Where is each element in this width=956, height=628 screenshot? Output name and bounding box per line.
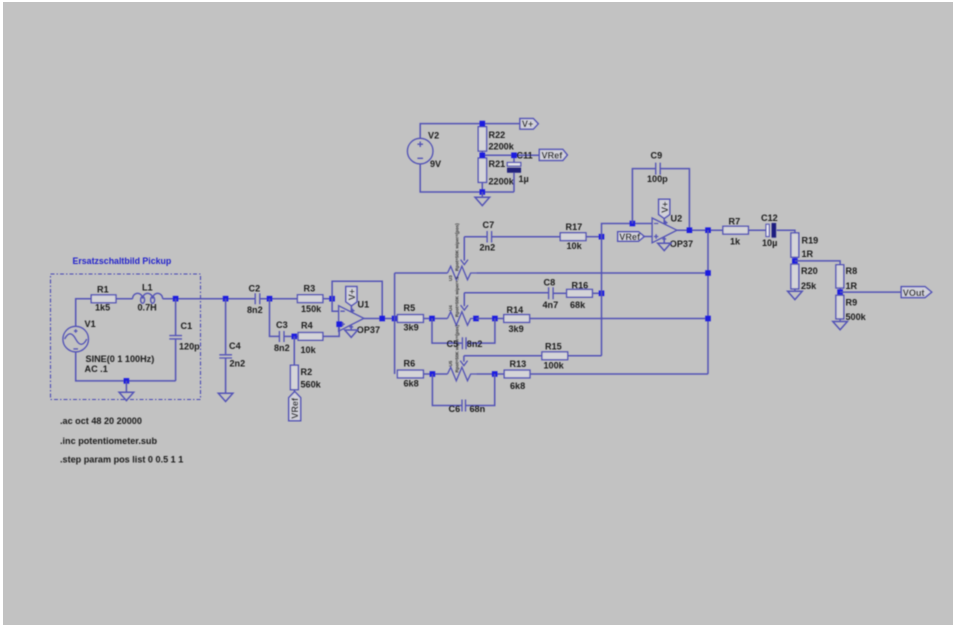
svg-text:R5: R5 bbox=[404, 303, 416, 313]
svg-text:68k: 68k bbox=[570, 300, 586, 310]
svg-text:R22: R22 bbox=[489, 130, 506, 140]
capacitor C6 bridge bbox=[432, 374, 494, 406]
svg-text:Rpot=50K wiper=(pos): Rpot=50K wiper=(pos) bbox=[455, 223, 460, 271]
wire pot2 to R14 bbox=[476, 318, 504, 320]
svg-text:0.7H: 0.7H bbox=[138, 303, 157, 313]
svg-text:500k: 500k bbox=[846, 312, 867, 322]
svg-text:25k: 25k bbox=[801, 281, 817, 291]
svg-text:9V: 9V bbox=[430, 159, 441, 169]
capacitor C1 bbox=[175, 299, 177, 335]
junction V+ rail / R22 bbox=[480, 121, 486, 127]
svg-text:VRef: VRef bbox=[542, 150, 564, 160]
svg-text:8n2: 8n2 bbox=[247, 305, 263, 315]
svg-text:U3: U3 bbox=[448, 275, 453, 281]
svg-text:.step param pos list 0 0.5 1 1: .step param pos list 0 0.5 1 1 bbox=[60, 455, 183, 465]
junction R8/R9/VOut bbox=[837, 289, 843, 295]
svg-text:V+: V+ bbox=[660, 202, 670, 213]
junction C2 out bbox=[267, 296, 273, 302]
svg-text:2200k: 2200k bbox=[489, 142, 515, 152]
svg-text:.inc potentiometer.sub: .inc potentiometer.sub bbox=[60, 436, 157, 446]
svg-text:C2: C2 bbox=[249, 284, 261, 294]
resistor R4 bbox=[298, 333, 323, 341]
op-amp U2 triangle bbox=[652, 218, 677, 243]
svg-text:OP37: OP37 bbox=[670, 239, 693, 249]
svg-text:1k: 1k bbox=[730, 237, 741, 247]
resistor R15 bbox=[542, 352, 568, 360]
svg-text:R15: R15 bbox=[545, 342, 562, 352]
svg-text:OP37: OP37 bbox=[357, 325, 380, 335]
potentiometer U4 track bbox=[448, 312, 477, 325]
resistor R9 bbox=[836, 295, 844, 319]
wire pot3 to R13 bbox=[476, 373, 504, 375]
junction output bus bbox=[392, 316, 398, 322]
svg-text:VRef: VRef bbox=[619, 232, 641, 242]
svg-text:10µ: 10µ bbox=[762, 238, 777, 248]
svg-text:1µ: 1µ bbox=[519, 174, 529, 184]
junction C9 left bbox=[630, 221, 636, 227]
ground pickup bbox=[125, 381, 127, 392]
junction feedback/output bbox=[379, 316, 385, 322]
junction right bus row2 bbox=[705, 316, 711, 322]
svg-text:2n2: 2n2 bbox=[480, 243, 496, 253]
resistor R16 bbox=[567, 289, 593, 297]
svg-text:C12: C12 bbox=[761, 213, 778, 223]
svg-text:R2: R2 bbox=[301, 367, 313, 377]
svg-text:R16: R16 bbox=[572, 280, 589, 290]
svg-text:2200k: 2200k bbox=[489, 177, 515, 187]
capacitor C4 bbox=[225, 299, 227, 355]
svg-text:VOut: VOut bbox=[903, 288, 925, 298]
svg-text:C9: C9 bbox=[651, 151, 663, 161]
junction R16 / mix bus bbox=[599, 291, 605, 297]
junction C5 right bbox=[492, 316, 498, 322]
svg-text:U1: U1 bbox=[358, 300, 370, 310]
svg-text:100k: 100k bbox=[544, 361, 565, 371]
svg-text:V+: V+ bbox=[522, 119, 533, 129]
wire to VOut flag bbox=[840, 291, 901, 293]
svg-text:Rpot=50K wiper=(pos): Rpot=50K wiper=(pos) bbox=[455, 324, 460, 372]
svg-text:10k: 10k bbox=[567, 241, 583, 251]
svg-text:8n2: 8n2 bbox=[274, 343, 290, 353]
resistor R19 bbox=[791, 233, 799, 257]
svg-text:U5: U5 bbox=[448, 360, 453, 366]
wire pickup bottom rail bbox=[76, 352, 176, 381]
svg-text:C11: C11 bbox=[517, 151, 533, 161]
svg-text:560k: 560k bbox=[301, 380, 322, 390]
wire row1 right bbox=[476, 272, 708, 274]
resistor R5 bbox=[397, 315, 423, 323]
svg-text:R9: R9 bbox=[846, 298, 858, 308]
flag V+ at U1 bbox=[350, 306, 352, 312]
voltage source V2 bbox=[407, 138, 433, 164]
resistor R7 bbox=[723, 226, 749, 234]
potentiometer U3 track bbox=[448, 266, 477, 279]
wire mix bus bbox=[602, 224, 653, 356]
svg-text:.ac oct 48 20 20000: .ac oct 48 20 20000 bbox=[60, 416, 142, 426]
svg-text:U4: U4 bbox=[448, 305, 453, 311]
junction C3 out / R2 tap bbox=[292, 334, 298, 340]
junction R5/C5 bbox=[429, 316, 435, 322]
flag VRef (supply mid) bbox=[539, 149, 567, 160]
svg-text:V+: V+ bbox=[347, 289, 357, 300]
svg-text:C8: C8 bbox=[544, 278, 556, 288]
resistor R6 bbox=[397, 370, 423, 378]
svg-text:V1: V1 bbox=[85, 319, 96, 329]
svg-text:C4: C4 bbox=[229, 341, 242, 351]
ground below V2 rail bbox=[481, 192, 483, 197]
junction R6/C6 bbox=[430, 371, 436, 377]
wire V1 top bbox=[76, 299, 92, 327]
svg-text:R20: R20 bbox=[801, 266, 818, 276]
capacitor C11 (polarized 1u) bbox=[513, 155, 515, 162]
junction C6 right bbox=[492, 371, 498, 377]
wire right bus down to row3 bbox=[707, 230, 709, 374]
wire V2 bottom to ground rail bbox=[420, 164, 514, 192]
svg-text:R6: R6 bbox=[404, 359, 416, 369]
wire Vref node to C11 and flag bbox=[482, 154, 539, 156]
dashed enclosure box bbox=[51, 274, 201, 400]
junction output/right bus bbox=[705, 227, 711, 233]
svg-text:100p: 100p bbox=[647, 174, 668, 184]
svg-text:C3: C3 bbox=[276, 320, 288, 330]
capacitor C5 bridge bbox=[432, 319, 495, 344]
junction R3/feedback node bbox=[329, 296, 335, 302]
svg-text:4n7: 4n7 bbox=[543, 300, 559, 310]
junction R19/R20/R8 bbox=[792, 258, 798, 264]
resistor R8 bbox=[836, 265, 844, 288]
svg-text:6k8: 6k8 bbox=[510, 381, 525, 391]
potentiometer U3 wiper arrow bbox=[463, 237, 465, 261]
junction right bus row1 bbox=[705, 270, 711, 276]
junction pot2 right bbox=[473, 316, 479, 322]
op-amp U1 triangle bbox=[339, 306, 364, 332]
ground C4 bbox=[218, 393, 233, 401]
resistor R3 bbox=[297, 295, 323, 303]
U2 input polarity marks bbox=[654, 224, 658, 239]
svg-text:R7: R7 bbox=[729, 217, 741, 227]
wire L1 to C2 bbox=[163, 298, 255, 300]
flag VOut bbox=[901, 287, 932, 298]
svg-text:10k: 10k bbox=[301, 345, 317, 355]
svg-text:C7: C7 bbox=[483, 220, 495, 230]
wire left bus (rows 1-3) bbox=[394, 273, 396, 374]
inductor L1 bbox=[133, 293, 163, 298]
ground at U1 V- pin bbox=[350, 325, 352, 330]
capacitor C12 (polarized 10u) bbox=[766, 224, 769, 236]
svg-text:1R: 1R bbox=[802, 249, 814, 259]
junction C1 top bbox=[173, 296, 179, 302]
wire to R8 bbox=[795, 261, 840, 265]
resistor R13 bbox=[504, 370, 530, 378]
wire branch down to C3 bbox=[270, 299, 280, 337]
potentiometer U4 wiper arrow bbox=[463, 293, 465, 307]
junction VRef node bbox=[480, 153, 486, 159]
junction C11 top bbox=[511, 153, 517, 159]
capacitor C7 bbox=[487, 231, 492, 243]
capacitor C3 bbox=[279, 331, 284, 342]
svg-text:Rpot=50K wiper=.5: Rpot=50K wiper=.5 bbox=[455, 276, 460, 317]
svg-text:150k: 150k bbox=[301, 304, 322, 314]
wire V2 top to V+ rail bbox=[420, 124, 520, 139]
ground R20 bbox=[788, 291, 803, 299]
wire wiper3 to R15 bbox=[464, 355, 542, 357]
svg-text:R8: R8 bbox=[846, 266, 858, 276]
svg-text:6k8: 6k8 bbox=[404, 379, 419, 389]
svg-text:V2: V2 bbox=[428, 131, 439, 141]
svg-text:R3: R3 bbox=[304, 284, 316, 294]
potentiometer U5 track bbox=[448, 367, 477, 380]
resistor R2 bbox=[293, 336, 295, 365]
flag VRef at R2 (points up) bbox=[289, 392, 301, 421]
junction pickup ground bbox=[124, 378, 130, 384]
svg-text:C6: C6 bbox=[449, 404, 461, 414]
junction R17 / mix bus bbox=[599, 234, 605, 240]
resistor R17 bbox=[560, 233, 586, 241]
flag V+ at U2 bbox=[663, 217, 665, 224]
svg-text:8n2: 8n2 bbox=[467, 339, 483, 349]
svg-text:Ersatzschaltbild Pickup: Ersatzschaltbild Pickup bbox=[73, 256, 172, 266]
resistor R20 bbox=[791, 264, 799, 289]
wire wiper2 to C8 bbox=[464, 292, 548, 294]
resistor R21 bbox=[478, 158, 486, 182]
flag V+ (supply) bbox=[520, 119, 538, 130]
U2 power marks bbox=[662, 221, 667, 239]
svg-text:L1: L1 bbox=[142, 283, 153, 293]
svg-text:R14: R14 bbox=[507, 305, 525, 315]
svg-text:R13: R13 bbox=[510, 359, 527, 369]
svg-text:R1: R1 bbox=[97, 285, 109, 295]
svg-text:2n2: 2n2 bbox=[230, 359, 246, 369]
wire U2 output bbox=[677, 229, 723, 231]
svg-text:1k5: 1k5 bbox=[95, 303, 110, 313]
wire VRef flag to U2 bbox=[644, 236, 652, 238]
ground at U2 V- pin bbox=[663, 237, 665, 243]
wire U1 feedback loop bbox=[332, 281, 382, 318]
capacitor C2 bbox=[255, 293, 260, 304]
ground R9 bbox=[833, 322, 848, 330]
svg-text:120p: 120p bbox=[179, 342, 200, 352]
junction noninverting bend bbox=[336, 321, 342, 327]
capacitor C9 feedback bbox=[632, 169, 689, 231]
svg-text:3k9: 3k9 bbox=[509, 324, 524, 334]
U1 input polarity marks bbox=[340, 311, 344, 326]
resistor R14 bbox=[504, 315, 530, 323]
resistor R1 bbox=[91, 295, 116, 303]
svg-text:U2: U2 bbox=[671, 214, 683, 224]
svg-text:R17: R17 bbox=[566, 222, 583, 232]
svg-text:3k9: 3k9 bbox=[404, 323, 419, 333]
svg-text:R19: R19 bbox=[802, 236, 819, 246]
voltage source V1 (sine) bbox=[63, 326, 89, 352]
svg-text:68n: 68n bbox=[470, 404, 486, 414]
svg-text:AC .1: AC .1 bbox=[85, 364, 108, 374]
capacitor C8 bbox=[549, 287, 554, 299]
junction C4 tap bbox=[223, 296, 229, 302]
resistor R22 bbox=[478, 127, 486, 151]
svg-text:1R: 1R bbox=[846, 281, 858, 291]
wire wiper1 to C7 bbox=[464, 236, 487, 238]
junction C9 right bbox=[687, 227, 693, 233]
potentiometer U5 wiper arrow bbox=[463, 356, 465, 362]
U1 power marks bbox=[349, 309, 354, 327]
svg-text:SINE(0 1 100Hz): SINE(0 1 100Hz) bbox=[86, 354, 155, 364]
flag VRef at U2 input bbox=[618, 232, 645, 242]
svg-text:R4: R4 bbox=[301, 321, 314, 331]
wire into inverting input bbox=[332, 299, 339, 312]
junction ground rail bbox=[480, 189, 486, 195]
svg-text:R21: R21 bbox=[489, 159, 506, 169]
wire U1 output bbox=[364, 318, 398, 320]
wire row1 left bbox=[395, 272, 448, 274]
svg-text:VRef: VRef bbox=[290, 397, 300, 419]
svg-text:C1: C1 bbox=[181, 321, 193, 331]
